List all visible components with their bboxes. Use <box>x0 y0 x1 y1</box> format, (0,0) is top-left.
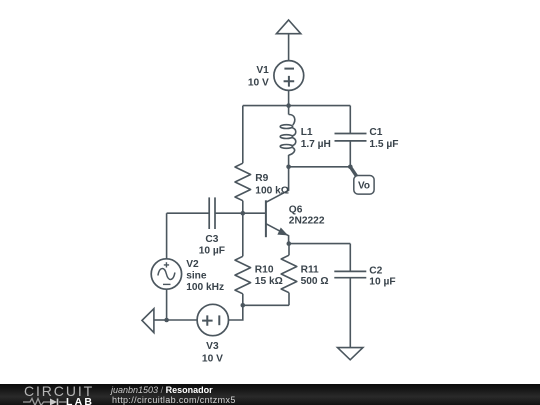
svg-text:L1: L1 <box>301 127 313 138</box>
V2 minus symbol <box>163 283 171 285</box>
svg-text:10 µF: 10 µF <box>369 277 395 288</box>
junction node bottom rail <box>241 303 246 308</box>
svg-text:10 V: 10 V <box>248 77 269 88</box>
resistor R10 <box>235 213 251 305</box>
svg-text:2N2222: 2N2222 <box>289 215 325 226</box>
capacitor C3 <box>167 197 215 229</box>
ground flag left <box>142 309 154 333</box>
wire top rail <box>243 105 350 107</box>
junction node V2 bottom <box>164 318 169 323</box>
Q6 emitter arrow <box>279 229 287 235</box>
transistor Q6 collector <box>266 167 289 203</box>
ground symbol bottom <box>338 348 363 360</box>
junction node emitter <box>287 241 292 246</box>
capacitor C2 <box>334 244 366 348</box>
svg-text:V2: V2 <box>186 259 199 270</box>
svg-text:100 kΩ: 100 kΩ <box>255 185 289 196</box>
svg-text:1.7 µH: 1.7 µH <box>301 139 331 150</box>
footer bar <box>0 384 540 405</box>
resistor R9 <box>235 163 251 201</box>
svg-text:V3: V3 <box>206 341 219 352</box>
junction node top rail <box>286 103 291 108</box>
svg-text:500 Ω: 500 Ω <box>301 276 329 287</box>
Vo flag stem <box>350 167 357 178</box>
svg-text:10 V: 10 V <box>202 353 223 364</box>
svg-text:C3: C3 <box>205 234 218 245</box>
svg-text:Vo: Vo <box>358 180 370 191</box>
CircuitLab logo text <box>24 383 94 399</box>
svg-text:R9: R9 <box>255 173 268 184</box>
junction node L1 bottom <box>286 165 291 170</box>
wire R9 to base node <box>242 201 244 214</box>
V3 bar symbol <box>218 315 220 325</box>
wire V1 to top rail <box>288 90 290 105</box>
svg-text:R11: R11 <box>301 264 319 275</box>
svg-text:1.5 µF: 1.5 µF <box>369 139 398 150</box>
junction node C1 bottom / Vo <box>348 165 353 170</box>
wire emitter rail to C2 <box>289 243 351 245</box>
wire base <box>215 212 266 214</box>
svg-text:R10: R10 <box>255 264 274 275</box>
footer title line <box>111 385 213 395</box>
Vo flag box <box>354 176 374 195</box>
capacitor C1 <box>335 106 367 167</box>
power flag VDD top <box>276 20 300 34</box>
wire power flag to V1 <box>288 34 290 61</box>
footer url line <box>112 395 236 405</box>
wire node to flag <box>154 319 167 321</box>
wire C3 to V2 <box>166 213 168 259</box>
wire bottom rail <box>243 304 289 306</box>
wire left branch down to R9 <box>242 106 244 164</box>
V2 sine symbol <box>158 269 175 280</box>
source V2 circle <box>151 259 181 289</box>
transistor Q2 base bar <box>265 200 267 237</box>
junction node base <box>241 211 246 216</box>
logo wire glyph <box>23 397 73 405</box>
V1 plus symbol <box>284 76 295 87</box>
svg-text:Q6: Q6 <box>289 204 303 215</box>
wire V2 to bottom node <box>166 289 168 320</box>
svg-text:sine: sine <box>186 270 207 281</box>
svg-text:V1: V1 <box>256 65 269 76</box>
inductor L1 <box>280 106 296 167</box>
source V1 circle <box>274 61 304 91</box>
wire V3 to bottom rail <box>229 305 243 320</box>
resistor R11 <box>281 244 297 306</box>
svg-text:100 kHz: 100 kHz <box>186 282 224 293</box>
source V3 circle <box>197 304 228 335</box>
svg-text:10 µF: 10 µF <box>199 245 225 256</box>
wire L1 bottom rail to C1 <box>289 166 351 168</box>
svg-text:15 kΩ: 15 kΩ <box>255 276 283 287</box>
V1 minus symbol <box>284 68 294 70</box>
svg-text:C2: C2 <box>369 265 382 276</box>
transistor Q6 emitter <box>266 224 289 244</box>
V3 plus symbol <box>202 315 213 325</box>
wire node to V3 <box>167 319 198 321</box>
V2 plus symbol <box>164 262 169 267</box>
svg-text:C1: C1 <box>369 127 382 138</box>
